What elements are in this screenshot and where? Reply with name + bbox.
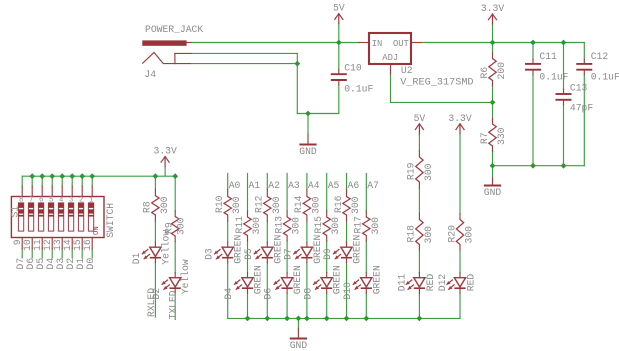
svg-text:GND: GND (299, 146, 317, 157)
svg-text:J4: J4 (144, 69, 156, 80)
svg-text:C13: C13 (570, 82, 588, 93)
svg-text:A6: A6 (348, 180, 360, 191)
svg-text:R18: R18 (406, 225, 417, 243)
svg-text:D0: D0 (85, 258, 96, 270)
svg-text:ADJ: ADJ (382, 53, 398, 63)
svg-text:A7: A7 (367, 180, 379, 191)
svg-text:S1: S1 (10, 206, 21, 218)
svg-text:POWER_JACK: POWER_JACK (145, 24, 203, 35)
svg-text:A1: A1 (249, 180, 261, 191)
svg-text:R11: R11 (234, 216, 245, 234)
svg-text:D6: D6 (263, 288, 274, 300)
svg-text:2: 2 (79, 196, 83, 204)
svg-text:D12: D12 (437, 274, 448, 292)
svg-text:5: 5 (49, 196, 53, 204)
svg-text:C11: C11 (539, 51, 557, 62)
svg-text:D1: D1 (131, 252, 142, 264)
svg-text:5V: 5V (333, 3, 345, 14)
svg-text:6: 6 (39, 196, 43, 204)
svg-text:5V: 5V (414, 113, 426, 124)
svg-text:OUT: OUT (393, 39, 409, 49)
svg-text:330: 330 (496, 127, 507, 145)
svg-text:GREEN: GREEN (371, 265, 382, 294)
svg-text:GREEN: GREEN (352, 235, 363, 264)
svg-text:0.1uF: 0.1uF (539, 71, 568, 82)
svg-text:RED: RED (425, 274, 436, 292)
svg-text:V_REG_317SMD: V_REG_317SMD (400, 77, 473, 88)
svg-text:Yellow: Yellow (180, 259, 191, 294)
svg-text:4: 4 (59, 196, 63, 204)
svg-text:D8: D8 (302, 288, 313, 300)
svg-text:300: 300 (159, 196, 170, 214)
svg-text:D5: D5 (243, 248, 254, 260)
svg-text:300: 300 (176, 217, 187, 235)
svg-text:R8: R8 (142, 201, 153, 213)
svg-text:7: 7 (29, 196, 33, 204)
svg-text:ON: ON (93, 226, 101, 235)
svg-text:D3: D3 (203, 248, 214, 260)
svg-text:R9: R9 (164, 222, 175, 234)
svg-text:300: 300 (231, 196, 242, 214)
svg-text:300: 300 (291, 217, 302, 235)
svg-text:0.1uF: 0.1uF (591, 71, 619, 82)
svg-text:R16: R16 (333, 195, 344, 213)
svg-text:3.3V: 3.3V (481, 3, 504, 14)
svg-text:300: 300 (464, 226, 475, 244)
svg-text:D7: D7 (283, 248, 294, 260)
svg-text:300: 300 (350, 196, 361, 214)
svg-text:R14: R14 (293, 195, 304, 213)
svg-text:D11: D11 (396, 274, 407, 292)
svg-text:R12: R12 (254, 195, 265, 213)
svg-text:A2: A2 (268, 180, 280, 191)
svg-text:3.3V: 3.3V (448, 113, 471, 124)
svg-text:300: 300 (310, 196, 321, 214)
svg-text:3: 3 (69, 196, 73, 204)
svg-text:300: 300 (271, 196, 282, 214)
svg-text:1: 1 (89, 196, 93, 204)
svg-text:IN: IN (372, 39, 383, 49)
svg-text:47pF: 47pF (570, 102, 593, 113)
svg-text:300: 300 (251, 217, 262, 235)
svg-text:A0: A0 (229, 180, 241, 191)
svg-text:A5: A5 (328, 180, 340, 191)
svg-text:R20: R20 (446, 225, 457, 243)
svg-text:R15: R15 (313, 216, 324, 234)
svg-text:R19: R19 (406, 162, 417, 180)
svg-text:300: 300 (423, 226, 434, 244)
svg-text:C10: C10 (344, 62, 362, 73)
svg-text:D4: D4 (223, 288, 234, 300)
svg-text:D2: D2 (151, 288, 162, 300)
svg-text:0.1uF: 0.1uF (344, 83, 373, 94)
svg-text:16: 16 (82, 239, 93, 251)
svg-text:A4: A4 (308, 180, 320, 191)
svg-text:U2: U2 (401, 65, 413, 76)
svg-text:300: 300 (370, 217, 381, 235)
svg-text:D10: D10 (342, 282, 353, 300)
svg-text:8: 8 (19, 196, 23, 204)
svg-text:D9: D9 (322, 248, 333, 260)
svg-text:C12: C12 (591, 51, 609, 62)
svg-text:R13: R13 (273, 216, 284, 234)
svg-text:R7: R7 (479, 132, 490, 144)
svg-text:R17: R17 (353, 216, 364, 234)
svg-text:TXLED: TXLED (168, 290, 179, 319)
svg-text:R6: R6 (479, 67, 490, 79)
svg-text:GND: GND (484, 187, 502, 198)
svg-text:300: 300 (423, 163, 434, 181)
svg-text:R10: R10 (214, 195, 225, 213)
svg-text:RED: RED (466, 274, 477, 292)
svg-text:300: 300 (330, 217, 341, 235)
svg-text:SWITCH: SWITCH (105, 203, 116, 238)
svg-text:GND: GND (290, 340, 308, 351)
svg-text:200: 200 (496, 62, 507, 80)
svg-text:3.3V: 3.3V (154, 146, 177, 157)
svg-text:A3: A3 (288, 180, 300, 191)
